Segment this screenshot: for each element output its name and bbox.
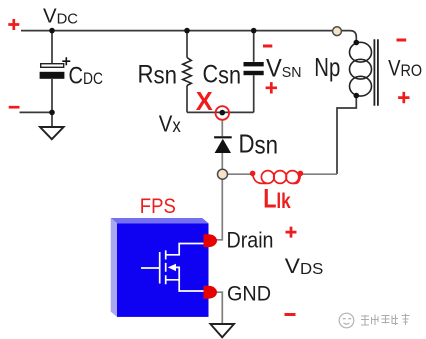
svg-text:Np: Np	[314, 52, 340, 82]
svg-text:VRO: VRO	[388, 56, 422, 81]
svg-text:Rsn: Rsn	[138, 61, 178, 90]
svg-text:VDC: VDC	[43, 6, 78, 28]
svg-text:FPS: FPS	[140, 195, 176, 218]
svg-text:Dsn: Dsn	[239, 128, 279, 159]
svg-text:VSN: VSN	[266, 54, 302, 82]
svg-text:Vx: Vx	[159, 111, 181, 138]
svg-text:Llk: Llk	[263, 184, 291, 214]
svg-text:CDC: CDC	[69, 63, 104, 90]
svg-text:X: X	[196, 86, 214, 116]
svg-text:Drain: Drain	[227, 228, 274, 253]
svg-text:GND: GND	[227, 282, 271, 306]
svg-text:VDS: VDS	[285, 255, 324, 278]
